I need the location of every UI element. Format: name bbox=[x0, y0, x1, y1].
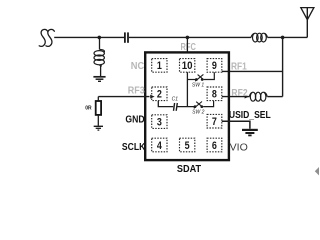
inductor L3 (series, RF2) bbox=[249, 92, 267, 101]
switch SW1 bbox=[187, 72, 214, 81]
label RF2 (gray) bbox=[231, 88, 248, 99]
switch SW2 bbox=[194, 101, 214, 109]
wire: pin 10 vertical bus inside IC bbox=[186, 72, 188, 106]
svg-text:NC: NC bbox=[131, 61, 144, 72]
svg-text:SCLK: SCLK bbox=[122, 142, 146, 153]
resistor R1 (0R shunt) bbox=[96, 101, 101, 115]
label RFC (gray) bbox=[181, 42, 196, 53]
wire: stub down to resistor bbox=[97, 97, 99, 101]
svg-text:SW 2: SW 2 bbox=[192, 109, 204, 115]
svg-text:7: 7 bbox=[212, 116, 217, 128]
svg-text:8: 8 bbox=[212, 89, 217, 101]
svg-text:6: 6 bbox=[212, 140, 217, 152]
label SDAT bbox=[177, 163, 202, 175]
wire: resistor to ground bbox=[97, 115, 99, 126]
svg-text:RF1: RF1 bbox=[231, 61, 247, 72]
wire: shunt inductor to ground bbox=[100, 65, 102, 76]
label C1 bbox=[172, 96, 179, 102]
pin 10 bbox=[180, 59, 195, 73]
wire: RFC stem down to IC top edge bbox=[186, 37, 188, 52]
antenna ANT1 bbox=[301, 8, 314, 38]
RF feed squiggle (port symbol) bbox=[39, 29, 54, 46]
svg-text:USID_SEL: USID_SEL bbox=[229, 110, 271, 121]
capacitor C1 (series, inside IC) bbox=[174, 103, 178, 111]
node: junction dot at RFC tap bbox=[186, 36, 190, 40]
arrowhead on RF2 wire bbox=[245, 95, 249, 99]
ground (below shunt inductor) bbox=[93, 77, 105, 82]
wire: top rail from series inductor to antenna corner bbox=[267, 36, 307, 38]
label RF3 (gray) bbox=[128, 85, 145, 96]
pin 2 bbox=[152, 87, 167, 101]
pin 9 bbox=[207, 59, 222, 73]
label 0R bbox=[85, 105, 92, 111]
label SW2 bbox=[192, 109, 204, 115]
wire: RF2 from pin 8 to RF2 inductor bbox=[222, 96, 250, 98]
inductor L1 (shunt, vertical) bbox=[94, 50, 104, 67]
label SCLK bbox=[122, 142, 146, 153]
svg-text:4: 4 bbox=[157, 140, 162, 152]
ground (below resistor) bbox=[94, 126, 103, 130]
wire: RF3 from shunt resistor to pin 2 bbox=[98, 96, 149, 98]
pin 8 bbox=[207, 87, 222, 101]
decorative gray diamond (scroll handle) bbox=[315, 167, 320, 176]
node: junction dot at shunt inductor tap bbox=[98, 36, 102, 40]
arrowhead at pin 2 entry bbox=[150, 95, 154, 99]
svg-text:3: 3 bbox=[157, 116, 162, 128]
pin 4 bbox=[152, 138, 167, 152]
label NC (gray) bbox=[131, 61, 144, 72]
pin 7 bbox=[207, 114, 222, 128]
svg-text:1: 1 bbox=[157, 60, 162, 72]
label USID_SEL bbox=[229, 110, 271, 121]
label GND bbox=[125, 115, 144, 126]
svg-text:SDAT: SDAT bbox=[177, 163, 202, 175]
label RF1 (gray) bbox=[231, 61, 247, 72]
IC U1 outline bbox=[145, 52, 229, 160]
wire: C1 to SW2 bbox=[178, 106, 195, 108]
ground (USID_SEL) bbox=[242, 130, 258, 136]
svg-text:RF2: RF2 bbox=[231, 88, 248, 99]
svg-text:SW 1: SW 1 bbox=[192, 83, 204, 89]
svg-text:VIO: VIO bbox=[230, 142, 248, 153]
wire: RF2 inductor to branch bbox=[267, 96, 282, 98]
node: junction dot feeding RF1/RF2 branch bbox=[281, 36, 285, 40]
pin 3 bbox=[152, 115, 167, 129]
svg-text:2: 2 bbox=[157, 89, 162, 101]
wire: RF1 from pin 9 to branch bbox=[222, 70, 283, 72]
wire: pin 2 stub down to C1 row bbox=[158, 101, 173, 107]
label SW1 bbox=[192, 83, 204, 89]
inductor L2 (series, top rail) bbox=[251, 33, 267, 42]
wire: vertical branch from antenna node down to RF2 row bbox=[282, 37, 284, 96]
wire: stem from junction down to shunt inductor bbox=[99, 37, 101, 49]
pin 5 bbox=[180, 138, 195, 152]
capacitor C2 (series, top rail) bbox=[124, 32, 129, 42]
svg-text:5: 5 bbox=[185, 140, 190, 152]
svg-text:C1: C1 bbox=[172, 96, 179, 102]
svg-text:GND: GND bbox=[125, 115, 144, 126]
label VIO bbox=[230, 142, 248, 153]
svg-text:0R: 0R bbox=[85, 105, 92, 111]
pin 1 bbox=[152, 59, 167, 73]
pin 6 bbox=[207, 138, 222, 152]
svg-text:9: 9 bbox=[212, 60, 217, 72]
wire: top rail from squiggle to series capacitor bbox=[54, 36, 124, 38]
svg-text:RF3: RF3 bbox=[128, 85, 145, 96]
wire: top rail from capacitor to RFC junction bbox=[129, 36, 251, 38]
wire: USID_SEL from pin 7 to ground bbox=[222, 121, 250, 129]
svg-text:10: 10 bbox=[182, 60, 193, 72]
